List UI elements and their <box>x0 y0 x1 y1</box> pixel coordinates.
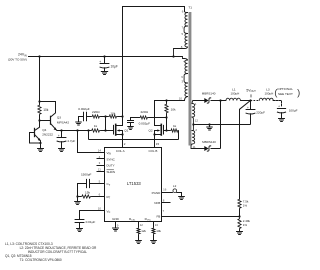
pin 16 PGND wire <box>162 192 173 194</box>
pin 11 SHDN stub <box>97 171 105 173</box>
wire cap to ground <box>130 123 132 127</box>
wire D1 to output node <box>211 100 227 102</box>
svg-text:Q3: Q3 <box>57 116 61 120</box>
svg-text:SEE TEXT: SEE TEXT <box>278 92 293 96</box>
ground below Q4 <box>38 149 44 152</box>
wire gate bridge riser left <box>88 131 90 140</box>
ground of RT network <box>75 202 81 205</box>
T1 secondary winding pin1-pin12 <box>191 101 194 104</box>
wire L1 to 5VOUT node <box>240 100 250 102</box>
wire Q1 drain line <box>122 7 124 126</box>
capacitor C-in 10uF <box>104 57 106 64</box>
resistor R-bias 10k <box>38 105 41 115</box>
capacitor C-slew Q1 0.002uF <box>84 112 87 120</box>
ground of secondary center tap <box>209 125 211 128</box>
wire L2 to ground <box>177 193 182 197</box>
wire 10k to Q1 drain line <box>117 116 122 118</box>
svg-text:MPSA42: MPSA42 <box>57 120 69 124</box>
node junction bias rail / VIN feed <box>76 129 78 131</box>
svg-text:L2: L2 <box>173 184 177 188</box>
svg-text:10k: 10k <box>171 107 176 111</box>
svg-text:FB: FB <box>156 215 160 219</box>
ground of Q1 snubber <box>76 122 82 125</box>
node junction Q2 source <box>153 133 155 135</box>
node junction pin10 wire / 10k Q2 <box>165 99 167 101</box>
transistor Q4 2N2222 (diode-connected) <box>34 128 36 136</box>
svg-text:Q1: Q1 <box>124 129 128 133</box>
wire Q2 slew node riser to gate <box>166 118 168 131</box>
pin 3 DUTY stub <box>97 165 105 167</box>
T1 pin8 lead <box>174 47 188 57</box>
svg-text:1500pF: 1500pF <box>81 172 92 176</box>
node junction bias rail / gate bridge riser <box>87 129 89 131</box>
svg-text:T1: COILTRONICS VP4-0860: T1: COILTRONICS VP4-0860 <box>20 258 62 262</box>
svg-text:): ) <box>297 88 300 98</box>
resistor R-ff Q2 10k <box>166 101 168 104</box>
ground of PGND <box>179 197 185 200</box>
wire 1k to Q1 gate node <box>100 130 113 132</box>
capacitor C-out 220uF <box>250 101 252 110</box>
resistor R-gate Q2 1k <box>170 129 178 132</box>
svg-text:10: 10 <box>98 207 102 211</box>
wire T1 pin11 to D2 <box>191 148 205 150</box>
svg-text:Q2: Q2 <box>148 129 152 133</box>
svg-text:220µF: 220µF <box>256 111 265 115</box>
svg-text:LT1533: LT1533 <box>127 181 142 186</box>
svg-text:0.01µF: 0.01µF <box>86 220 96 224</box>
svg-text:12: 12 <box>195 119 199 123</box>
node junction Q3 base node <box>38 119 40 121</box>
svg-text:MBRS140: MBRS140 <box>202 92 216 96</box>
node junction Q4 emitter / ground <box>39 142 41 144</box>
transistor Q3 MPSA42 <box>50 116 52 124</box>
wire D2 to rectifier join <box>211 148 221 150</box>
node junction bias rail / 4.7uF <box>60 129 62 131</box>
node junction FB divider <box>238 215 240 217</box>
resistor R-VSL 10k <box>153 222 155 228</box>
wire VC pin 10 to 0.01uF <box>80 211 105 220</box>
svg-text:220Ω: 220Ω <box>140 110 148 114</box>
svg-text:14: 14 <box>98 148 102 152</box>
wire 220ohm to cap <box>131 118 140 121</box>
ground of Q2 snubber <box>128 127 134 130</box>
svg-text:15: 15 <box>156 142 160 146</box>
svg-text:1%: 1% <box>243 204 248 208</box>
wire 15k to RT pin 6 <box>78 196 82 198</box>
node junction RT network <box>76 195 78 197</box>
svg-text:11: 11 <box>98 168 101 172</box>
ground below pin 9 <box>113 228 119 231</box>
ground below C-in <box>101 72 107 75</box>
wire secondary ground return <box>193 124 250 126</box>
ground below 12k <box>136 241 142 244</box>
inductor L3 100uH (optional) <box>251 100 260 102</box>
wire Q2 220ohm to slew node <box>148 117 166 119</box>
wire feedback diagonal from 5VOUT <box>240 101 251 199</box>
resistor R-CSL 12k <box>138 222 140 228</box>
ground below divider <box>237 232 243 235</box>
node 5VOUT <box>249 99 251 101</box>
svg-text:NFB: NFB <box>154 201 160 205</box>
node junction Q1 source <box>121 133 123 135</box>
T1 pin7-pin5 jog <box>184 26 187 34</box>
node junction Q1 gate node <box>104 129 106 131</box>
ground below 4.7uF <box>59 149 65 152</box>
resistor R-slew Q2 220ohm <box>139 116 148 119</box>
inductor L2 (ferrite bead) <box>173 189 177 193</box>
T1 primary winding pin5-pin8 <box>185 34 188 48</box>
svg-text:+: + <box>278 104 280 108</box>
capacitor C-bias 4.7uF <box>61 131 63 138</box>
pin 8 NFB stub <box>162 202 171 204</box>
wire RT node to ground <box>77 197 79 202</box>
node junction rectifier join <box>219 99 221 101</box>
svg-text:100µH: 100µH <box>264 92 273 96</box>
wire 5VOUT label tick <box>250 94 252 97</box>
resistor R-fb-bottom 2.49k 1% <box>238 218 241 229</box>
svg-text:COL B: COL B <box>148 149 157 153</box>
T1 pin11 lead <box>191 144 192 149</box>
svg-text:0.002µF: 0.002µF <box>78 107 90 111</box>
diode D2 MBRS140 (schottky) <box>204 146 208 151</box>
wire VIN feed from bias rail to pin 14 <box>78 131 105 153</box>
svg-text:GND: GND <box>112 217 120 221</box>
svg-text:10: 10 <box>179 97 183 101</box>
wire Q3 base node down to Q4 collector <box>39 121 41 128</box>
node junction Q2 slew network <box>165 116 167 118</box>
T1 center tap pins 12/2 <box>192 117 193 131</box>
pin 9 GND lead <box>115 222 117 229</box>
wire 10k to Q2 slew node <box>166 114 168 118</box>
T1 primary winding pin3-pin10 <box>185 83 188 97</box>
node junction 24V rail / bias branch <box>38 55 40 57</box>
svg-text:SHDN: SHDN <box>107 170 116 174</box>
svg-text:12: 12 <box>140 223 144 227</box>
svg-text:10k: 10k <box>110 112 115 116</box>
node junction 24V rail / T1 pins 8,4 <box>172 55 174 57</box>
svg-text:Q4: Q4 <box>42 128 46 132</box>
op-amp U1 LT1533 body <box>105 148 162 222</box>
inductor L1 100uH <box>226 98 240 100</box>
svg-text:T1: T1 <box>188 6 192 10</box>
resistor R-fb-top 7.5k 1% <box>238 199 241 209</box>
T1 primary winding pin4-pin9 <box>185 60 188 74</box>
svg-text:1k: 1k <box>94 124 98 128</box>
resistor R-gate Q1 1k <box>91 129 100 132</box>
wire gate bridge riser right to Q2 1k <box>178 131 180 140</box>
wire rectifier join vertical <box>220 101 222 149</box>
wire bias branch from rail down to 10k <box>39 57 41 105</box>
svg-text:INDUCTOR COILCRAFT B-07T TYPIC: INDUCTOR COILCRAFT B-07T TYPICAL <box>28 250 88 254</box>
wire L3 dashed to 100uF <box>273 101 281 107</box>
svg-text:0.002µF: 0.002µF <box>139 122 151 126</box>
ground below 10k <box>151 241 157 244</box>
pin 7 FB wire <box>162 216 240 218</box>
wire Q1 gate node riser <box>105 117 107 131</box>
svg-text:15k: 15k <box>85 190 90 194</box>
svg-text:10µF: 10µF <box>111 65 118 69</box>
svg-text:100µH: 100µH <box>230 92 239 96</box>
transistor Q2 MOSFET <box>163 125 165 134</box>
wire snubber ground lead <box>79 117 84 123</box>
transistor Q1 MOSFET <box>113 125 115 134</box>
node junction Q1 slew network <box>104 115 106 117</box>
pin 4 SYNC stub <box>97 158 105 160</box>
transformer T1 core <box>189 12 192 146</box>
svg-text:(20V TO 50V): (20V TO 50V) <box>8 58 27 62</box>
wire gate bridge <box>89 139 179 141</box>
svg-text:1k: 1k <box>173 124 177 128</box>
wire 24V input rail <box>28 56 174 58</box>
node junction Q2 gate node <box>165 129 167 131</box>
capacitor C-slew Q2 0.002uF <box>128 120 134 122</box>
node junction ground return tap <box>208 123 210 125</box>
T1 pin4 lead <box>174 57 188 61</box>
wire Q4 emitter node to ground <box>40 143 42 149</box>
T1 secondary winding pin2-pin11 <box>192 131 195 145</box>
svg-text:100µF: 100µF <box>289 109 298 113</box>
svg-text:12k: 12k <box>141 229 146 233</box>
wire T1 pin 10 to Q2 drain <box>155 101 185 126</box>
wire 220ohm to node <box>100 116 105 118</box>
wire Q1 source to COL A pin 2 <box>122 135 124 148</box>
T1 pin9-pin3 jog <box>184 74 187 84</box>
T1 pin10 lead <box>185 97 188 101</box>
wire top rail T1 pin 6 to Q1 drain <box>123 7 185 12</box>
resistor R-ff Q1 10k <box>109 115 118 118</box>
T1 primary winding pin6-pin7 <box>185 11 188 12</box>
wire Q2 source to COL B pin 15 <box>154 135 156 148</box>
svg-text:SYNC: SYNC <box>107 158 116 162</box>
svg-text:5VOUT: 5VOUT <box>246 88 256 93</box>
wire 2.49k to ground <box>239 229 241 231</box>
wire 7.5k to FB node <box>239 209 241 217</box>
wire T1 pin1 to D1 <box>193 100 205 102</box>
svg-text:PGND: PGND <box>152 191 162 195</box>
wire CT pin 5 <box>90 183 105 185</box>
capacitor C-VC 0.01uF <box>75 219 84 221</box>
svg-text:10k: 10k <box>156 229 161 233</box>
svg-text:13: 13 <box>155 223 159 227</box>
wire cap to 220ohm <box>87 116 92 118</box>
svg-text:4.7µF: 4.7µF <box>67 139 75 143</box>
wire 10k to Q3 base node <box>39 115 41 121</box>
wire 1500pF left elbow <box>78 184 87 197</box>
ground below 100uF <box>279 119 285 122</box>
node junction Q3 collector branch <box>38 100 40 102</box>
svg-text:DUTY: DUTY <box>107 164 115 168</box>
node junction T1 center tap <box>192 123 194 125</box>
diode D1 MBRS140 (schottky) <box>204 98 208 103</box>
svg-text:OPTIONAL: OPTIONAL <box>277 87 293 91</box>
node junction 24V rail / 10uF <box>103 55 105 57</box>
svg-text:COL A: COL A <box>116 149 125 153</box>
ground below 0.01uF <box>77 229 83 232</box>
svg-text:10k: 10k <box>43 108 49 112</box>
svg-text:1%: 1% <box>243 223 248 227</box>
svg-text:MBRS140: MBRS140 <box>202 140 216 144</box>
svg-text:220Ω: 220Ω <box>92 110 100 114</box>
wire node to 10k <box>106 116 109 118</box>
resistor R-slew Q1 220ohm <box>91 115 100 118</box>
node junction Q1 drain / 10k <box>121 115 123 117</box>
svg-text:2N2222: 2N2222 <box>42 133 53 137</box>
resistor R-T 15k <box>81 195 91 198</box>
wire bias rail from Q3 emitter <box>57 130 91 132</box>
svg-text:16: 16 <box>163 188 167 192</box>
